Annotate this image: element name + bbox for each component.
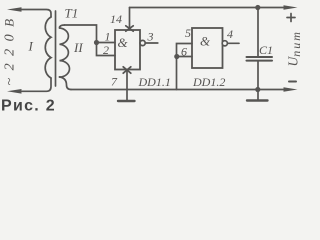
svg-text:I: I: [28, 39, 34, 54]
svg-text:Рис. 2: Рис. 2: [1, 98, 56, 115]
svg-text:1: 1: [105, 30, 111, 44]
svg-text:T1: T1: [65, 6, 79, 21]
svg-text:DD1.1: DD1.1: [138, 75, 171, 89]
svg-text:14: 14: [110, 12, 122, 26]
svg-text:&: &: [118, 35, 129, 50]
svg-text:II: II: [73, 40, 83, 55]
svg-text:4: 4: [227, 27, 233, 41]
svg-text:2: 2: [103, 43, 109, 57]
svg-text:~220В: ~220В: [2, 11, 18, 85]
svg-text:&: &: [200, 34, 211, 49]
svg-text:7: 7: [111, 75, 118, 89]
svg-text:3: 3: [147, 30, 154, 44]
svg-text:C1: C1: [259, 43, 273, 57]
svg-text:DD1.2: DD1.2: [192, 75, 225, 89]
svg-text:6: 6: [181, 45, 187, 59]
svg-text:5: 5: [185, 26, 191, 40]
